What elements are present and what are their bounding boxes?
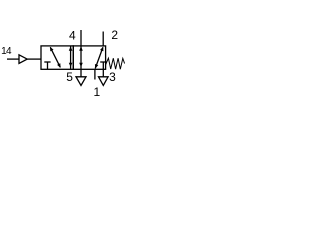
blocked port T (right box, port 3 position) — [100, 62, 106, 69]
svg-text:1: 1 — [94, 85, 101, 99]
blocked port T (left box, port 5 position) — [44, 62, 50, 69]
pilot triangle — [19, 55, 27, 64]
svg-text:4: 4 — [69, 28, 76, 42]
port 3 exhaust triangle — [99, 77, 109, 86]
valve body left box — [41, 46, 73, 69]
valve body right box — [73, 46, 105, 69]
svg-text:4: 4 — [6, 46, 12, 57]
pilot line 14 — [7, 58, 19, 60]
flow path 2->3 vertical (left box) — [69, 46, 73, 69]
port 2 line — [102, 32, 104, 46]
port 5 exhaust triangle — [76, 77, 86, 86]
port 1 line — [94, 69, 96, 79]
svg-text:2: 2 — [111, 28, 118, 42]
pilot to box wire — [27, 58, 41, 60]
svg-text:3: 3 — [109, 70, 116, 84]
flow path 4->5 vertical (right box) — [79, 46, 83, 69]
port 3 line — [102, 69, 104, 77]
flow path 1->4 diagonal (left box) — [50, 47, 61, 68]
return spring — [106, 58, 125, 69]
svg-text:5: 5 — [66, 70, 73, 84]
flow path 1->2 diagonal (right box) — [95, 47, 103, 69]
port 5 line — [80, 69, 82, 77]
port 4 line — [80, 30, 82, 46]
